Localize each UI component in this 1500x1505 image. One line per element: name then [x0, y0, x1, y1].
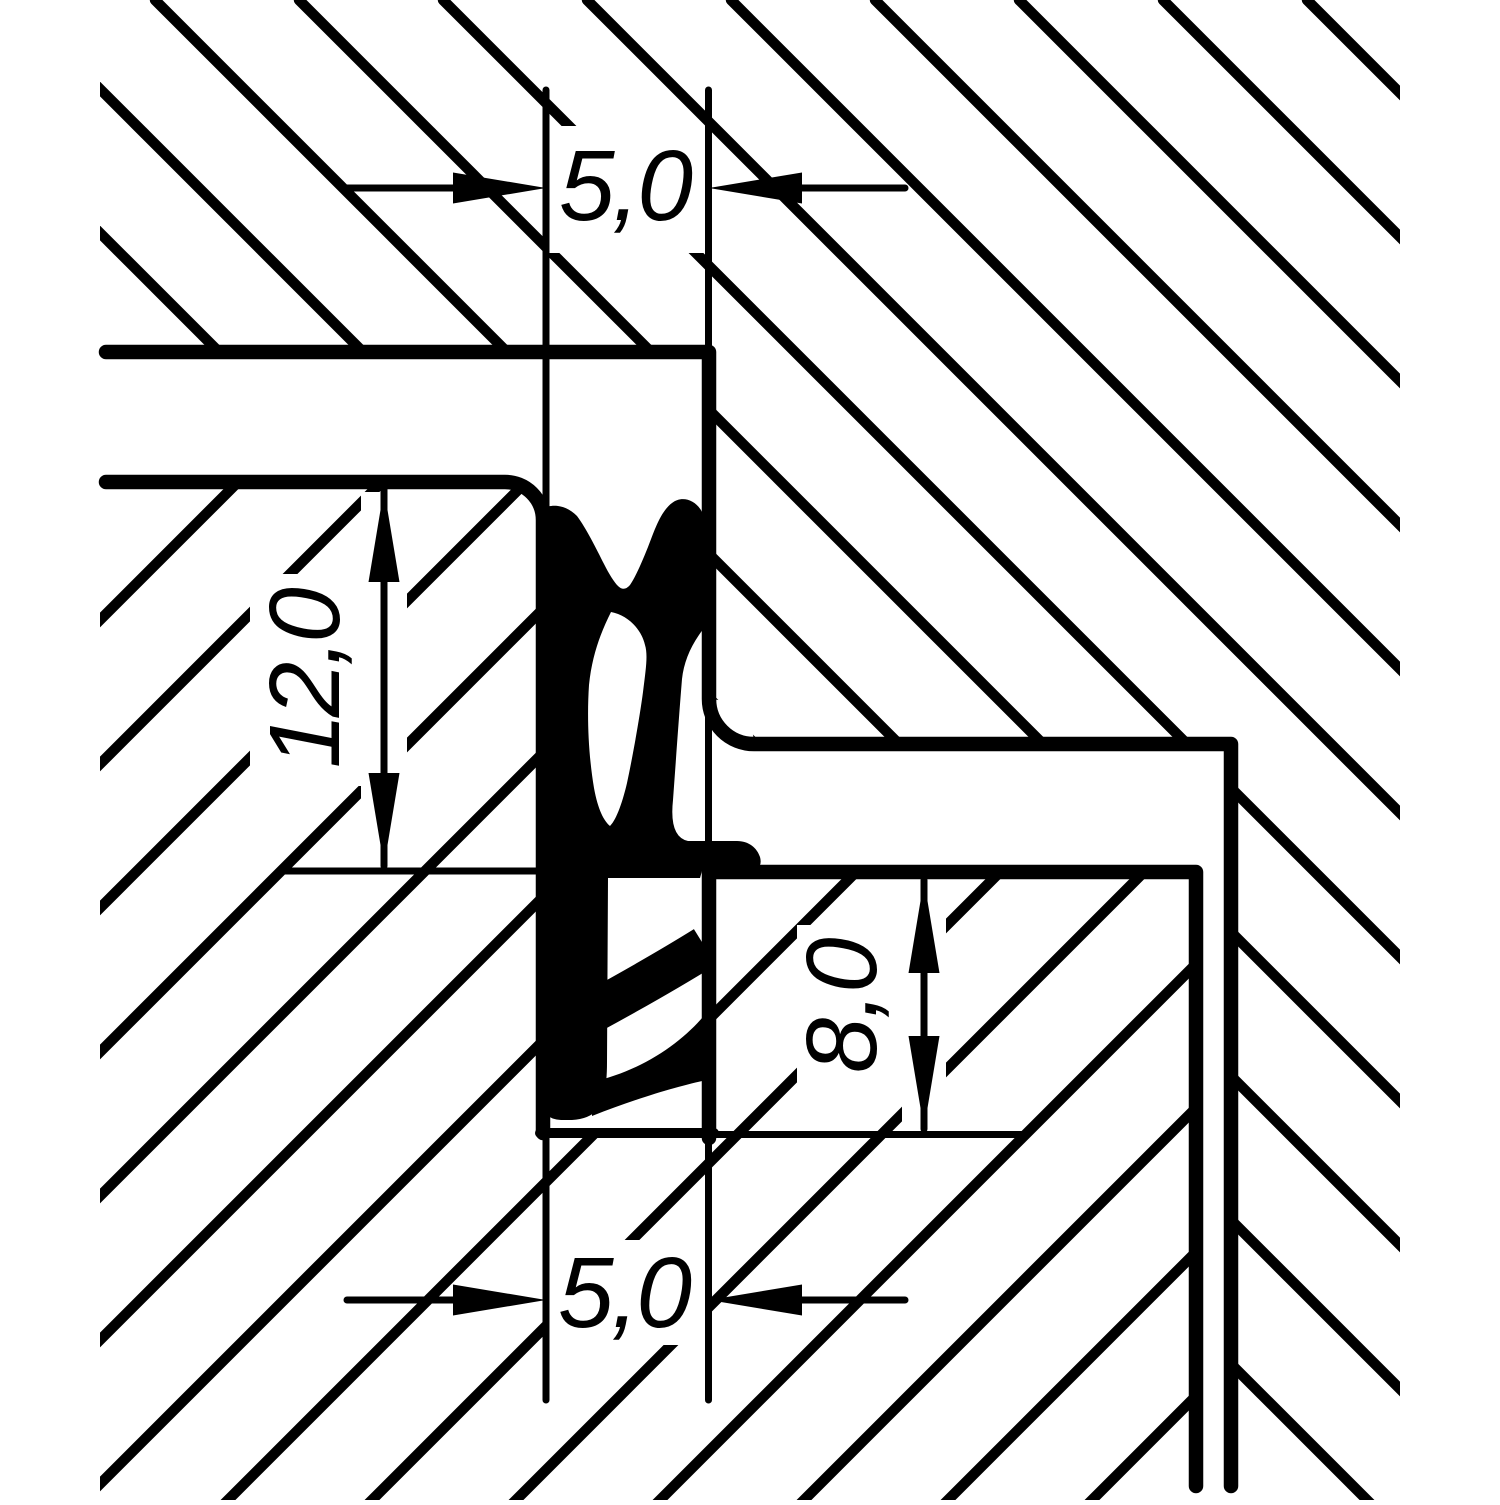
sash hatch line 8 — [875, 0, 1500, 1505]
trim band around 8,0 dimension line — [902, 886, 946, 1124]
8,0 dimension line — [921, 880, 928, 1129]
top 5,0 dimension line right segment — [800, 185, 905, 192]
frame hatch line 13 — [460, 0, 1500, 1505]
frame hatch line 5 — [0, 0, 1008, 1505]
sash hatch line 11 — [1307, 0, 1500, 1505]
frame hatch line 16 — [892, 0, 1500, 1505]
groove bottom line of frame — [540, 1128, 714, 1138]
extension line at groove right wall x=708.5 — [705, 90, 712, 1400]
trim box around top 5,0 text — [549, 126, 706, 253]
rubber seal upper sealing finger — [596, 947, 705, 1010]
top 5,0 dimension line left segment — [347, 185, 455, 192]
sash (upper profile) outline — [106, 352, 1231, 1486]
frame outline right: groove right wall, step face and right edge — [709, 872, 1196, 1486]
extension line at groove bottom y=1134.5 for 8,0 dimension — [712, 1131, 1025, 1138]
svg-text:5,0: 5,0 — [558, 1237, 691, 1349]
frame hatch line 2 — [0, 0, 576, 1505]
extension line at groove left wall x=546 — [543, 90, 550, 1400]
frame (lower profile) outline left with groove left wall — [106, 482, 543, 1133]
frame hatch line 14 — [604, 0, 1500, 1505]
bottom 5,0 dimension line right segment — [800, 1297, 905, 1304]
svg-text:8,0: 8,0 — [786, 938, 898, 1073]
sash hatch line 6 — [587, 0, 1500, 1505]
12,0 dimension line — [381, 489, 388, 866]
8,0 lower arrowhead — [909, 1036, 940, 1129]
sash hatch line 10 — [1163, 0, 1500, 1505]
top 5,0 left arrowhead — [453, 173, 546, 204]
trim box around bottom 5,0 text — [549, 1240, 706, 1345]
frame hatch line 4 — [0, 0, 864, 1505]
svg-text:5,0: 5,0 — [559, 130, 692, 242]
12,0 lower arrowhead — [369, 773, 400, 866]
hatch trim islands around dimensions — [250, 126, 946, 1345]
trim band around 12,0 dimension line — [361, 492, 407, 868]
bottom 5,0 right arrowhead — [709, 1285, 802, 1316]
sash hatch line 7 — [731, 0, 1500, 1505]
sash hatch line 5 — [443, 0, 1500, 1505]
frame hatch line 15 — [748, 0, 1500, 1505]
top 5,0 right arrowhead — [709, 173, 802, 204]
rubber seal main body with hollow chamber — [537, 499, 761, 1120]
trim box around 8,0 text — [797, 925, 902, 1102]
trim box around 12,0 text — [250, 574, 400, 786]
frame hatch line 6 — [0, 0, 1152, 1505]
frame hatch line 12 — [316, 0, 1500, 1505]
sash hatch line 9 — [1019, 0, 1500, 1505]
bottom 5,0 dimension line left segment — [347, 1297, 455, 1304]
12,0 upper arrowhead — [369, 489, 400, 582]
rubber seal lower sealing finger — [592, 1012, 707, 1116]
bottom 5,0 left arrowhead — [453, 1285, 546, 1316]
8,0 upper arrowhead — [909, 880, 940, 973]
extension line at frame step y=871 for 12,0 dimension — [282, 868, 545, 875]
svg-text:12,0: 12,0 — [249, 588, 361, 769]
frame hatch line 3 — [0, 0, 720, 1505]
frame hatch line 1 — [0, 0, 432, 1505]
